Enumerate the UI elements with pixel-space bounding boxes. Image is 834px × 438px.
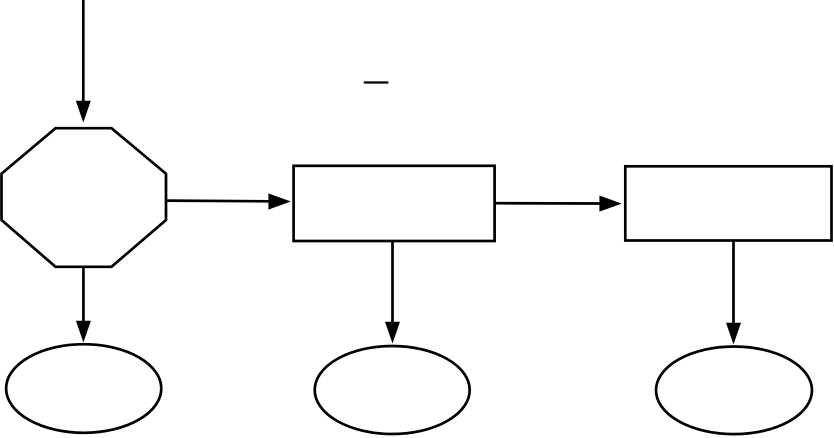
- dash label: [364, 81, 389, 83]
- arrowhead into box 1: [268, 193, 290, 209]
- octagon node: [2, 128, 167, 267]
- ellipse node 2: [315, 346, 470, 434]
- ellipse node 3: [656, 347, 812, 435]
- wire: box 2 down to ellipse 3: [732, 241, 735, 325]
- wire: octagon down to ellipse 1: [82, 267, 85, 322]
- wire: box 1 down to ellipse 2: [391, 241, 394, 323]
- process box 2: [625, 166, 831, 240]
- ellipse node 1: [6, 344, 161, 433]
- arrowhead into octagon: [76, 101, 91, 123]
- wire: top entry arrow shaft: [82, 0, 85, 103]
- arrowhead into ellipse 3: [726, 323, 741, 345]
- arrowhead into ellipse 2: [385, 322, 400, 344]
- arrowhead into box 2: [599, 196, 621, 212]
- wire: octagon to box 1: [166, 199, 270, 202]
- process box 1: [294, 166, 495, 241]
- wire: box 1 to box 2: [495, 202, 600, 205]
- arrowhead into ellipse 1: [76, 321, 91, 343]
